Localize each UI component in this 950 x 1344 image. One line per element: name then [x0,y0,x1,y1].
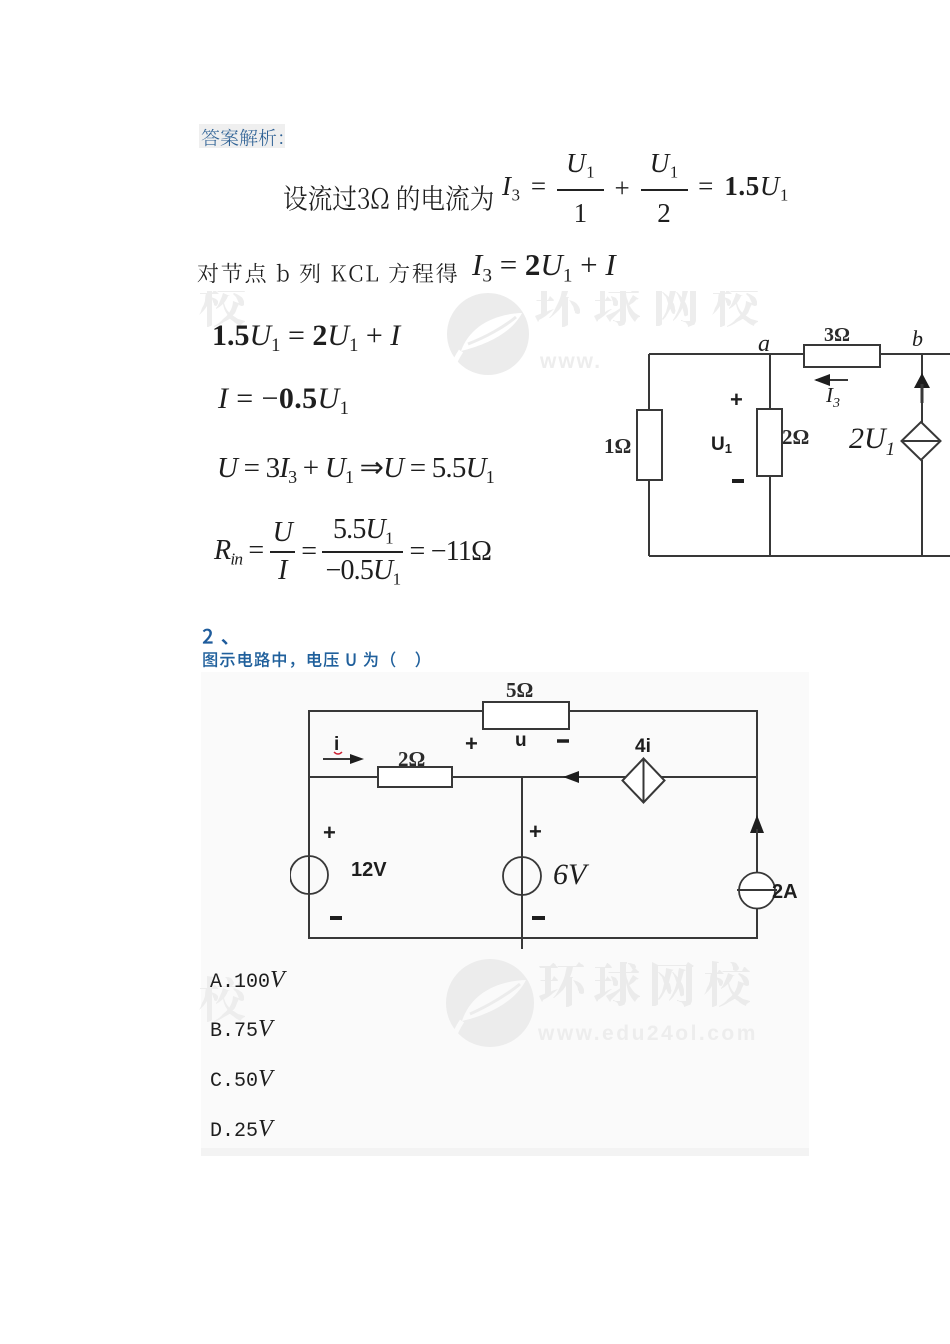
white background of eq2 scan image [150,235,950,291]
circuit 1 schematic [600,320,950,570]
svg-text:+: + [730,387,743,412]
svg-text:2Ω: 2Ω [398,747,425,771]
current I3 arrow [816,379,848,381]
watermark logo row2 [442,956,542,1051]
svg-text:+: + [465,731,478,756]
svg-text:U1: U1 [711,434,732,456]
middle horizontal wire [309,776,757,778]
svg-text:5Ω: 5Ω [506,678,533,702]
eq3: 1.5U1 = 2U1 + I [212,319,400,357]
2A source arrow up [750,815,764,833]
svg-text:a: a [758,331,770,357]
svg-text:I3: I3 [825,383,840,411]
svg-text:6V: 6V [553,858,590,891]
circuit 2 schematic [290,670,830,960]
watermark chars row2 [538,960,760,1018]
svg-text:4i: 4i [635,736,651,757]
options A-D [210,967,285,994]
dependent source 4i diamond [623,759,665,803]
svg-text:+: + [529,819,542,844]
node a wire (middle branch) [769,354,771,556]
svg-text:2Ω: 2Ω [782,425,809,449]
eq5: U = 3I3 + U1 => U = 5.5U1 [217,450,494,488]
red mark under i [334,752,342,754]
wire bottom [649,555,950,557]
6V source circle [503,857,541,895]
dependent source 2U1 diamond [902,422,941,460]
eq4: I = -0.5U1 [218,382,349,420]
question 2 text [202,651,434,671]
question number 2 [202,626,250,650]
resistor R2 2ohm [757,409,782,476]
12V source circle [290,856,328,894]
white background of circuit-1 scan image [600,327,950,600]
svg-text:1Ω: 1Ω [604,434,631,458]
eq1 chinese lead-in [283,184,496,218]
watermark chars row1 [534,280,772,338]
resistor R1 1ohm [637,410,662,480]
wire right branch [921,354,923,423]
middle vertical wire [521,777,523,949]
wire left branch [648,354,650,556]
svg-text:12V: 12V [351,859,387,881]
svg-text:2A: 2A [772,881,798,903]
svg-text:3Ω: 3Ω [824,324,850,346]
watermark logo row1 [440,288,540,383]
answer-analysis label [199,124,285,148]
resistor 2ohm [378,767,452,787]
wire top [649,353,950,355]
source arrow up [914,373,930,388]
eq1: I3 = U1/1 + U1/2 = 1.5U1 [502,150,789,227]
svg-text:+: + [323,820,336,845]
svg-text:u: u [515,730,527,751]
eq6: Rin = U/I = 5.5U1/-0.5U1 = -11 ohm [214,514,491,590]
current i arrow [323,758,360,760]
wire arrow into node [563,771,579,783]
eq2 chinese lead-in [197,262,461,288]
2A source circle [739,873,775,909]
eq2: I3 = 2U1 + I [472,247,616,287]
U1 minus sign [732,479,744,483]
svg-text:b: b [912,326,923,351]
12V minus [330,916,342,920]
resistor 5ohm [483,702,569,729]
resistor R3 3ohm [804,345,880,367]
6V minus [532,916,545,920]
svg-text:2U1: 2U1 [849,422,895,460]
u minus [557,739,569,743]
outer loop wire [309,711,757,938]
